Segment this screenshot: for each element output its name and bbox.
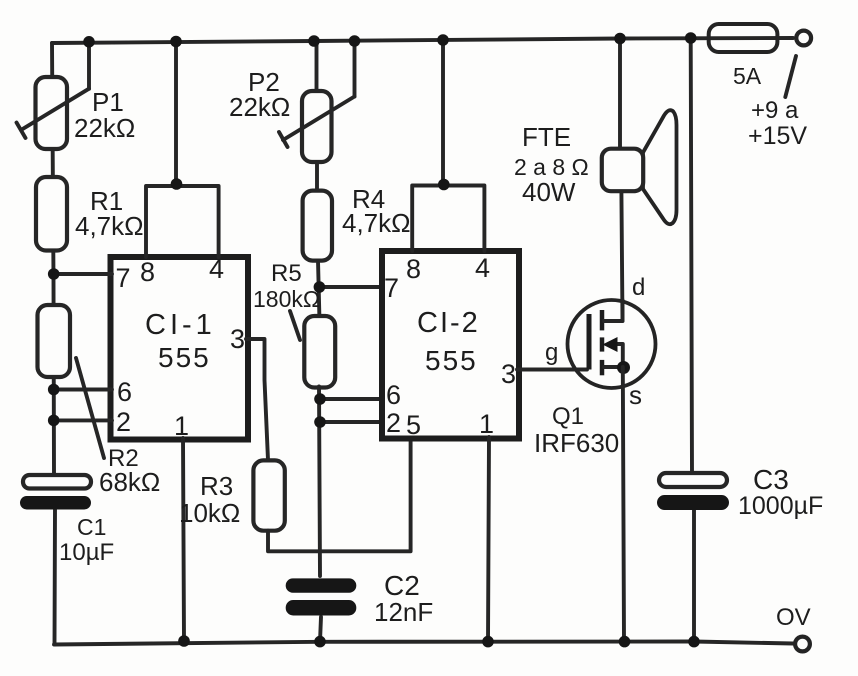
node top rail P1 wiper (83, 36, 95, 48)
label g (gate) (545, 339, 558, 366)
node ground C2 (314, 636, 326, 648)
value IRF630 (Q1) (534, 428, 619, 458)
capacitor C3 (657, 473, 729, 510)
speaker FTE (602, 110, 677, 224)
svg-text:5: 5 (406, 410, 421, 440)
value 68kΩ (R2) (99, 467, 160, 497)
svg-text:CI-2: CI-2 (417, 307, 480, 339)
pin 3 label (CI-1) (230, 324, 245, 354)
node top rail CI-1 supply (170, 36, 182, 48)
svg-text:555: 555 (158, 342, 211, 373)
value 5A (fuse) (733, 63, 762, 89)
node top rail P2 (308, 35, 320, 47)
svg-text:10kΩ: 10kΩ (179, 498, 240, 528)
pin 1 label (CI-2) (479, 409, 494, 439)
svg-text:5A: 5A (733, 63, 762, 89)
svg-text:4: 4 (475, 253, 490, 283)
svg-text:+9 a: +9 a (751, 97, 799, 124)
label C1 (77, 514, 106, 540)
svg-text:CI-1: CI-1 (145, 309, 216, 341)
svg-text:40W: 40W (522, 177, 576, 207)
svg-text:180kΩ: 180kΩ (253, 286, 320, 312)
wire R4 to R5 node (318, 261, 319, 318)
pin 4 label (CI-2) (475, 253, 490, 283)
svg-text:1: 1 (174, 411, 189, 441)
value 22kΩ (P1) (74, 113, 135, 143)
wire pin3 CI-1 to R3 (246, 339, 268, 460)
wire bottom 0V rail (54, 642, 793, 645)
svg-text:4: 4 (209, 254, 224, 284)
pin 6 label (CI-1) (117, 377, 132, 407)
label R4 (352, 184, 385, 214)
resistor R1 (36, 177, 67, 251)
capacitor C1 (20, 475, 91, 510)
pin 2 label (CI-2) (386, 408, 401, 438)
svg-text:6: 6 (117, 377, 132, 407)
svg-text:R5: R5 (271, 260, 302, 287)
svg-text:3: 3 (501, 359, 516, 389)
svg-text:1: 1 (479, 409, 494, 439)
node pin2 CI-2 (314, 416, 326, 428)
node CI-1 bracket (171, 178, 183, 190)
value 1000µF (C3) (738, 492, 823, 520)
potentiometer P2 (279, 42, 355, 163)
wire CI-2 supply bracket pins 8,4 (412, 40, 484, 251)
svg-text:FTE: FTE (522, 122, 571, 152)
svg-text:12nF: 12nF (374, 597, 433, 627)
label P1 (92, 87, 124, 117)
label C2 (384, 570, 420, 601)
node top rail P2 wiper (349, 35, 361, 47)
svg-text:+15V: +15V (748, 122, 807, 150)
pin 3 label (CI-2) (501, 359, 516, 389)
svg-text:7: 7 (384, 273, 399, 303)
svg-text:3: 3 (230, 324, 245, 354)
wire C3 column (691, 38, 694, 642)
value 12nF (C2) (374, 597, 433, 627)
node ground pin1 CI-1 (178, 635, 190, 647)
wire top supply rail (52, 38, 793, 43)
wire top rail to P2 (315, 41, 319, 95)
svg-text:C3: C3 (753, 464, 789, 495)
value 2 a 8 Ω (speaker) (514, 154, 589, 180)
svg-text:22kΩ: 22kΩ (229, 92, 290, 122)
wire pin2 CI-1 (54, 418, 112, 422)
node pin2 CI-1 (48, 415, 60, 427)
label R1 (90, 186, 123, 216)
wire pin3 CI-2 to gate (517, 368, 587, 372)
svg-text:8: 8 (140, 257, 155, 287)
node ground pin1 CI-2 (482, 636, 494, 648)
ic CI-1 555 box (111, 257, 249, 440)
pin 6 label (CI-2) (386, 380, 401, 410)
node top rail CI-2 supply (437, 34, 449, 46)
svg-text:IRF630: IRF630 (534, 428, 619, 458)
node pin7 CI-1 (48, 268, 60, 280)
wire node to pin7 CI-2 (319, 285, 384, 289)
svg-text:6: 6 (386, 380, 401, 410)
label OV (776, 604, 811, 631)
svg-text:4,7kΩ: 4,7kΩ (75, 211, 144, 241)
label s (source) (629, 380, 642, 410)
svg-text:4,7kΩ: 4,7kΩ (342, 208, 411, 238)
node ground source Q1 (619, 636, 631, 648)
pin 8 label (CI-2) (406, 254, 421, 284)
label R3 (200, 471, 233, 501)
pointer slash to +V label (785, 56, 796, 97)
wire CI-1 supply bracket pins 8,4 (146, 42, 219, 258)
terminal 0V (795, 637, 810, 652)
svg-text:22kΩ: 22kΩ (74, 113, 135, 143)
resistor R3 (253, 460, 284, 530)
svg-text:d: d (632, 274, 645, 301)
svg-text:Q1: Q1 (552, 403, 584, 430)
wire left column (52, 43, 55, 645)
wire R5 to pins 6,2 and C2 (319, 386, 384, 641)
label +15V (748, 122, 807, 150)
node top rail C3 (685, 32, 697, 44)
svg-text:2: 2 (386, 408, 401, 438)
label CI-2 (417, 307, 480, 339)
wire pin6 CI-1 (54, 388, 112, 392)
node CI-2 bracket (438, 179, 450, 191)
svg-text:g: g (545, 339, 558, 366)
value 10µF (C1) (59, 539, 114, 566)
pin 7 label (CI-1) (116, 263, 131, 293)
svg-text:OV: OV (776, 604, 811, 631)
svg-text:s: s (629, 380, 642, 410)
label P2 (248, 67, 280, 97)
terminal +V (796, 31, 811, 46)
node pin6 CI-1 (48, 384, 60, 396)
wire P2 to R4 (315, 162, 319, 191)
pin 1 label (CI-1) (174, 411, 189, 441)
label C3 (753, 464, 789, 495)
svg-text:1000µF: 1000µF (738, 492, 823, 520)
wire pin1 CI-1 to ground (183, 438, 184, 641)
svg-text:68kΩ: 68kΩ (99, 467, 160, 497)
fuse 5A (709, 24, 778, 52)
pin 7 label (CI-2) (384, 273, 399, 303)
node top rail speaker (614, 33, 626, 45)
resistor R4 (303, 191, 332, 261)
pin 5 label (CI-2) (406, 410, 421, 440)
capacitor C2 (286, 578, 357, 615)
label 555 (CI-1) (158, 342, 211, 373)
label R2 (108, 445, 139, 472)
label Q1 (552, 403, 584, 430)
svg-text:555: 555 (425, 345, 478, 376)
value 22kΩ (P2) (229, 92, 290, 122)
svg-text:2: 2 (116, 407, 131, 437)
label CI-1 (145, 309, 216, 341)
value 4,7kΩ (R4) (342, 208, 411, 238)
value 40W (speaker) (522, 177, 576, 207)
node pin6 CI-2 (314, 393, 326, 405)
pin 8 label (CI-1) (140, 257, 155, 287)
value 10kΩ (R3) (179, 498, 240, 528)
label R5 (271, 260, 302, 287)
label 555 (CI-2) (425, 345, 478, 376)
transistor Q1 IRF630 (568, 300, 656, 642)
label d (drain) (632, 274, 645, 301)
wire pin1 CI-2 to ground (488, 437, 489, 642)
node ground C3 (688, 636, 700, 648)
node R4-R5 pin7 CI-2 (314, 281, 326, 293)
svg-text:7: 7 (116, 263, 131, 293)
svg-text:R3: R3 (200, 471, 233, 501)
svg-text:8: 8 (406, 254, 421, 284)
wire drain to speaker (620, 39, 623, 322)
label +9 a (751, 97, 799, 124)
value 4,7kΩ (R1) (75, 211, 144, 241)
wire pin7 CI-1 (54, 272, 112, 276)
pin 2 label (CI-1) (116, 407, 131, 437)
resistor R5 (290, 311, 335, 388)
svg-text:C1: C1 (77, 514, 106, 540)
svg-text:10µF: 10µF (59, 539, 114, 566)
label FTE (522, 122, 571, 152)
potentiometer P1 (17, 42, 90, 150)
resistor R2 (38, 305, 105, 458)
ic CI-2 555 box (382, 251, 519, 439)
value 180kΩ (R5) (253, 286, 320, 312)
wire R3 to pin5 CI-2 (268, 437, 411, 551)
pin 4 label (CI-1) (209, 254, 224, 284)
